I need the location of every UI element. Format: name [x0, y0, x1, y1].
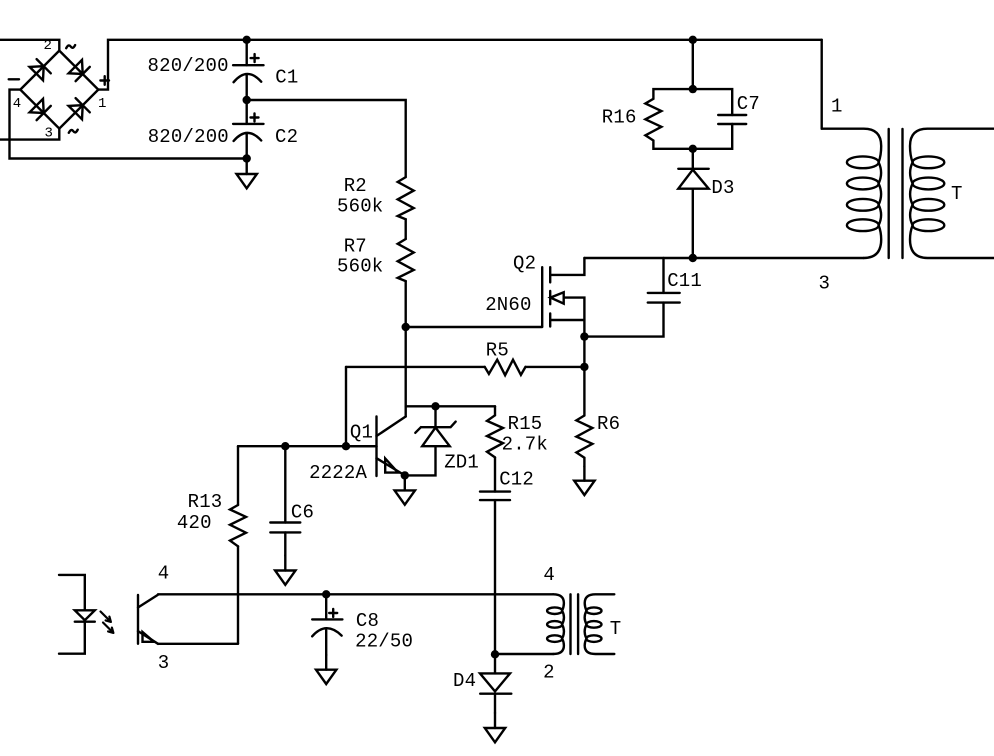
wire bridge pin 4 to C2 bottom node	[10, 90, 247, 159]
svg-text:420: 420	[177, 512, 212, 534]
svg-text:C7: C7	[737, 93, 760, 115]
bridge label ~ top	[66, 45, 75, 48]
capacitor C12	[480, 492, 510, 655]
capacitor C7	[693, 89, 746, 149]
capacitor C6	[270, 446, 300, 555]
transformer T1 secondary winding	[910, 129, 994, 258]
wire R2 to R7	[405, 219, 407, 239]
transformer T1 core	[889, 129, 903, 258]
wire Q2 drain rail to transformer	[584, 257, 863, 259]
capacitor C1 (polarized 820/200)	[233, 40, 263, 100]
node dot C8 top	[322, 590, 330, 598]
wire Q2 source down to R5 node	[583, 337, 585, 367]
svg-text:2: 2	[543, 662, 555, 684]
svg-text:R13: R13	[188, 491, 223, 513]
svg-text:R15: R15	[508, 413, 543, 435]
node dot R5/R6 junction	[580, 363, 588, 371]
transformer T1 primary winding	[822, 129, 882, 258]
svg-text:4: 4	[543, 564, 555, 586]
svg-text:2: 2	[44, 38, 52, 54]
node dot Q2 source junction	[580, 332, 588, 340]
svg-text:ZD1: ZD1	[444, 452, 479, 474]
svg-text:3: 3	[819, 273, 831, 295]
transistor Q1 (2222A)	[346, 417, 406, 477]
node dot R16/C7 bottom	[689, 145, 697, 153]
optocoupler phototransistor	[138, 595, 158, 644]
svg-text:1: 1	[98, 96, 106, 112]
svg-text:22/50: 22/50	[355, 631, 413, 653]
svg-text:T: T	[951, 183, 963, 205]
svg-text:C1: C1	[275, 67, 298, 89]
svg-text:R7: R7	[344, 236, 367, 258]
svg-text:560k: 560k	[337, 256, 383, 278]
resistor R5	[485, 360, 526, 376]
bridge diode lower-right (3 to 1)	[69, 98, 90, 119]
node dot drain rail at D3	[689, 254, 697, 262]
resistor R16	[645, 89, 692, 149]
node dot between C1 and C2	[243, 96, 251, 104]
svg-text:C12: C12	[499, 468, 534, 490]
svg-text:560k: 560k	[337, 196, 383, 218]
svg-text:R16: R16	[602, 107, 637, 129]
wire AC input bottom from bridge pin 3	[0, 129, 59, 140]
ground below C8	[316, 655, 336, 684]
svg-text:820/200: 820/200	[148, 126, 229, 148]
svg-text:Q2: Q2	[513, 253, 536, 275]
node dot D4 top	[491, 650, 499, 658]
resistor R13 420	[230, 446, 246, 644]
svg-text:T: T	[610, 618, 622, 640]
wire AC input top to bridge pin 2	[0, 40, 59, 51]
svg-text:C6: C6	[291, 502, 314, 524]
svg-text:D3: D3	[711, 177, 734, 199]
wire DC+ rail from bridge pin 1 along top	[98, 40, 821, 90]
wire opto collector rail to transformer T2 pin 4	[158, 593, 553, 595]
resistor R2 560k	[398, 177, 414, 219]
node dot Q1 emitter	[401, 471, 409, 479]
bridge label +	[100, 76, 109, 85]
transformer T2 primary winding	[547, 594, 564, 654]
bridge label -	[9, 78, 19, 80]
svg-text:2N60: 2N60	[485, 294, 531, 316]
wire R5 right segment	[526, 366, 585, 368]
wire C1/C2 node to R2 top	[247, 100, 406, 177]
ground below D4	[485, 713, 505, 742]
wire gate node to Q2 gate	[406, 326, 543, 328]
bridge rectifier B1 diamond	[20, 51, 98, 129]
diode D3	[678, 149, 708, 258]
wire T2 pin 2 to D4 node	[495, 653, 553, 655]
wire R5 left segment	[346, 366, 485, 368]
optocoupler light arrows	[101, 612, 114, 633]
svg-text:Q1: Q1	[350, 422, 373, 444]
svg-text:4: 4	[158, 563, 170, 585]
svg-text:R6: R6	[597, 413, 620, 435]
node dot ZD1 top	[431, 402, 439, 410]
node dot R16/C7 top	[689, 85, 697, 93]
wire R7 bottom to gate node	[405, 281, 407, 327]
node dot top rail at R16 branch	[689, 36, 697, 44]
transformer T2 secondary winding	[585, 594, 615, 654]
svg-text:C8: C8	[356, 610, 379, 632]
bridge diode upper-left (4 to 2)	[30, 59, 51, 80]
node dot C6 top	[281, 442, 289, 450]
resistor R15 2.7k	[487, 406, 503, 491]
zener diode ZD1	[405, 406, 456, 475]
optocoupler LED input wire top	[59, 575, 85, 610]
capacitor C11	[584, 258, 679, 337]
svg-text:1: 1	[831, 96, 843, 118]
resistor R7 560k	[398, 239, 414, 281]
svg-text:C2: C2	[275, 126, 298, 148]
wire R5 left vertical to Q1 base node	[345, 367, 347, 446]
ground below R6	[574, 467, 594, 496]
wire opto emitter to R13 bottom	[158, 643, 238, 645]
ground below C6	[275, 556, 295, 585]
svg-text:R5: R5	[486, 340, 509, 362]
transistor Q2 (MOSFET 2N60)	[542, 258, 584, 337]
svg-text:2.7k: 2.7k	[502, 433, 548, 455]
node dot top rail at C1	[243, 36, 251, 44]
bridge label ~ bottom	[69, 130, 78, 133]
transformer T1 primary lead from top rail	[821, 40, 823, 129]
ground below Q1 emitter	[395, 475, 415, 504]
diode D4	[480, 654, 511, 713]
svg-text:820/200: 820/200	[148, 55, 229, 77]
node dot C2 bottom	[243, 154, 251, 162]
wire collector vertical from gate node down	[405, 327, 407, 417]
resistor R6	[576, 367, 592, 467]
svg-text:D4: D4	[453, 670, 476, 692]
ground below C2	[237, 159, 257, 189]
svg-text:C11: C11	[667, 270, 702, 292]
node dot Q1 base	[342, 442, 350, 450]
wire zener/R15 horizontal	[406, 405, 495, 407]
bridge diode lower-left (4 to 3)	[30, 99, 51, 120]
wire R16/C7 branch from top rail	[692, 40, 694, 89]
svg-text:R2: R2	[344, 175, 367, 197]
svg-text:4: 4	[13, 96, 21, 112]
bridge diode upper-right (2 to 1)	[69, 60, 90, 81]
optocoupler LED	[59, 610, 95, 653]
capacitor C2 (polarized 820/200)	[233, 100, 263, 159]
svg-text:3: 3	[45, 126, 53, 142]
transformer T2 core	[571, 594, 579, 654]
wire R13 top horizontal to Q1 base	[238, 445, 377, 447]
svg-text:2222A: 2222A	[309, 462, 367, 484]
svg-text:3: 3	[158, 652, 170, 674]
capacitor C8 (polarized 22/50)	[312, 594, 342, 655]
node dot gate junction	[402, 323, 410, 331]
